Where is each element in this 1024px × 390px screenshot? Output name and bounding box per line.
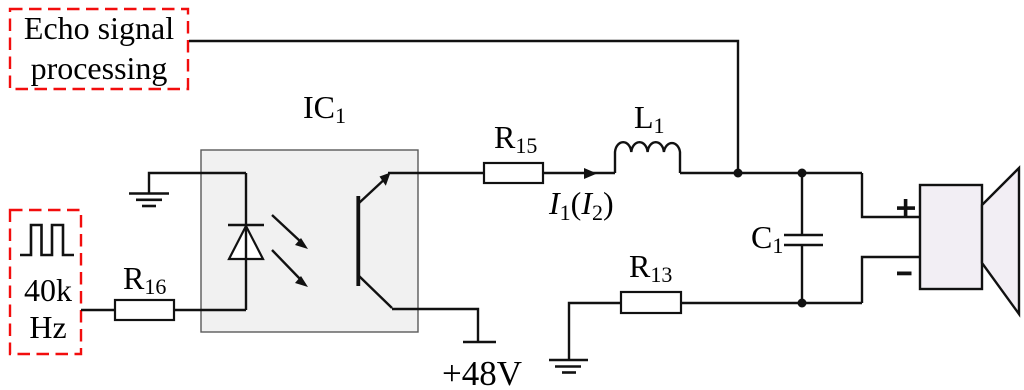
main output wire bbox=[680, 172, 862, 174]
wire R13 to bottom node bbox=[681, 302, 862, 304]
phototransistor (inside IC1) bbox=[358, 173, 392, 309]
light emission arrow 2 bbox=[272, 250, 308, 287]
wire R16 to LED anode bbox=[174, 309, 246, 311]
wire bottom node to transducer - bbox=[862, 257, 920, 303]
minus terminal label bbox=[897, 272, 912, 276]
wire top node to transducer + bbox=[862, 173, 920, 217]
plus terminal label bbox=[897, 199, 915, 217]
node junction dot B bbox=[798, 169, 807, 178]
transducer body bbox=[920, 185, 982, 289]
LED diode (inside IC1) bbox=[228, 173, 264, 310]
svg-text:Echo signal: Echo signal bbox=[24, 10, 174, 46]
ground (top-left) bbox=[129, 173, 246, 206]
+48V supply bar bbox=[463, 341, 496, 344]
wire R15 to L1 with current arrow bbox=[543, 168, 615, 179]
wire collector to R15 bbox=[388, 172, 484, 174]
inductor L1 bbox=[615, 99, 680, 173]
resistor R15 bbox=[484, 119, 543, 183]
square wave symbol bbox=[20, 225, 74, 255]
light emission arrow 1 bbox=[272, 215, 308, 249]
transducer horn bbox=[982, 168, 1019, 314]
svg-text:+48V: +48V bbox=[442, 354, 522, 390]
resistor R13 bbox=[621, 248, 681, 313]
capacitor C1 bbox=[751, 173, 823, 303]
echo signal processing block bbox=[10, 9, 188, 89]
svg-text:Hz: Hz bbox=[29, 309, 66, 345]
svg-text:processing: processing bbox=[31, 50, 168, 86]
node junction dot A bbox=[734, 169, 743, 178]
node junction dot C bbox=[798, 299, 807, 308]
wire from echo block to main node bbox=[189, 41, 738, 173]
svg-text:40k: 40k bbox=[24, 272, 72, 308]
ground (bottom, at R13) bbox=[549, 303, 621, 373]
IC1 optocoupler box bbox=[201, 150, 418, 332]
40kHz source block bbox=[10, 210, 81, 354]
wire emitter to +48V bbox=[392, 309, 478, 342]
svg-text:I1(I2): I1(I2) bbox=[548, 185, 614, 225]
resistor R16 bbox=[115, 260, 174, 320]
wire 40kHz to R16 bbox=[81, 309, 115, 311]
